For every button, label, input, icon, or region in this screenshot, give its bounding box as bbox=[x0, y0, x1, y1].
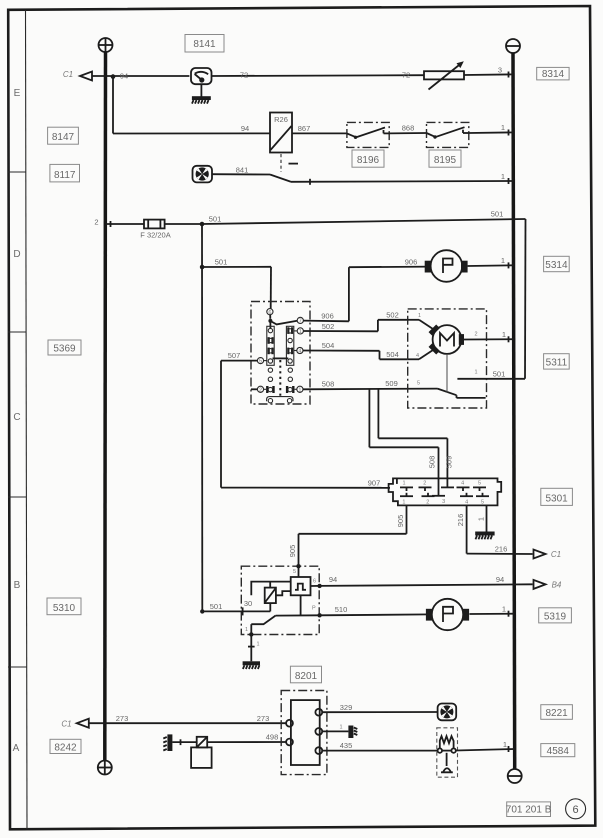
ground below 8141 bbox=[192, 84, 211, 103]
wire 501 vertical long left bbox=[201, 224, 203, 611]
svg-text:A: A bbox=[13, 743, 20, 754]
junction node 501 branch bbox=[200, 257, 271, 308]
svg-text:1: 1 bbox=[298, 387, 301, 393]
mechanical link R26 dashes bbox=[281, 154, 298, 172]
bottom contacts wiper switch bbox=[264, 386, 297, 393]
wire 2 from left bus to fuse bbox=[94, 218, 144, 228]
svg-text:94: 94 bbox=[329, 575, 337, 584]
terminal bar washer level sensor bbox=[163, 734, 196, 751]
svg-text:72: 72 bbox=[240, 71, 248, 80]
wire 94 row E bbox=[92, 72, 189, 81]
svg-text:3: 3 bbox=[442, 499, 445, 505]
svg-text:501: 501 bbox=[210, 602, 223, 611]
wire 329 to fan 8221 bbox=[322, 703, 437, 712]
wire 94 relay to arrow B4 bbox=[320, 575, 533, 586]
terminal bar middle pin 8201 bbox=[322, 725, 357, 738]
svg-text:1: 1 bbox=[402, 480, 405, 486]
wire 508 509 lower bbox=[303, 379, 438, 389]
wire 435 to 4584 bbox=[322, 741, 437, 750]
svg-text:5319: 5319 bbox=[544, 611, 567, 622]
wire 507 pin5 bbox=[221, 351, 257, 488]
switch blade pin6 to pin7 bbox=[270, 321, 297, 325]
svg-text:3: 3 bbox=[498, 66, 502, 75]
pin 1 wiper switch upper bbox=[297, 328, 303, 335]
svg-text:905: 905 bbox=[396, 515, 405, 528]
washer gauge icon 8141 bbox=[191, 68, 212, 84]
wire 1 motor 5319 to bus bbox=[469, 605, 514, 617]
svg-text:6: 6 bbox=[573, 804, 579, 816]
wiper motor box 5311 bbox=[408, 309, 487, 408]
svg-text:273: 273 bbox=[257, 714, 270, 723]
svg-text:4: 4 bbox=[416, 353, 419, 359]
svg-text:1: 1 bbox=[256, 641, 259, 647]
wire 94 branch down to relay R26 row bbox=[113, 77, 270, 134]
rear pump motor P 5319 bbox=[426, 599, 469, 630]
coil top feed wire bbox=[251, 582, 290, 596]
svg-text:216: 216 bbox=[456, 514, 465, 527]
wire 501 long to right loop bbox=[202, 210, 526, 225]
wire 907 to connector bbox=[221, 478, 390, 487]
label box 5311 bbox=[544, 354, 570, 369]
ground wire connector pin5 bbox=[475, 505, 494, 539]
svg-text:907: 907 bbox=[368, 478, 381, 487]
label box 5301 bbox=[541, 488, 573, 505]
connector block 8201 bbox=[281, 691, 327, 775]
washer pump P 5314 bbox=[425, 250, 468, 282]
svg-text:B: B bbox=[14, 580, 21, 591]
svg-text:5: 5 bbox=[259, 359, 262, 365]
wire 501 park contact bbox=[457, 369, 525, 378]
fan icon 8221 bbox=[438, 704, 457, 721]
svg-text:1: 1 bbox=[299, 329, 302, 335]
left bus bar positive bbox=[98, 38, 113, 775]
label box 5314 bbox=[544, 256, 570, 271]
left contact strip bbox=[267, 326, 274, 365]
wire 72 to variable resistor bbox=[212, 71, 425, 80]
svg-text:2: 2 bbox=[426, 499, 429, 505]
variable resistor 8314 row E bbox=[424, 61, 464, 89]
pin 4 wiper switch bbox=[297, 347, 303, 354]
svg-text:8221: 8221 bbox=[545, 708, 568, 719]
pin 5 wiper switch bbox=[257, 358, 263, 365]
relay contact blade bbox=[251, 595, 319, 634]
svg-text:1: 1 bbox=[502, 605, 506, 614]
svg-text:1: 1 bbox=[339, 725, 342, 731]
svg-text:E: E bbox=[14, 88, 21, 99]
wire 906 pin7 bbox=[303, 312, 349, 322]
svg-text:1: 1 bbox=[503, 740, 507, 749]
svg-text:906: 906 bbox=[405, 258, 418, 267]
connector arrow B4 right bbox=[534, 580, 562, 590]
wiper motor M bbox=[429, 324, 464, 354]
svg-text:8195: 8195 bbox=[434, 155, 457, 166]
title box 701 201 B bbox=[506, 802, 552, 817]
free contacts mid bbox=[268, 368, 292, 382]
svg-text:1: 1 bbox=[245, 627, 248, 633]
svg-text:C1: C1 bbox=[551, 550, 561, 559]
svg-text:905: 905 bbox=[288, 545, 297, 558]
fuse F32 20A bbox=[140, 220, 170, 240]
label box 8196 bbox=[352, 150, 384, 167]
svg-text:C: C bbox=[13, 412, 20, 423]
wire 3 to right bus bbox=[464, 66, 513, 78]
svg-text:1: 1 bbox=[501, 123, 505, 132]
wire 841 bbox=[212, 166, 270, 175]
label box 5369 bbox=[48, 340, 81, 355]
svg-text:5: 5 bbox=[417, 381, 420, 387]
zone column line bbox=[26, 10, 28, 829]
svg-text:F 32/20A: F 32/20A bbox=[140, 231, 170, 240]
svg-text:R26: R26 bbox=[274, 115, 288, 124]
label box 5310 bbox=[47, 598, 81, 615]
svg-text:501: 501 bbox=[493, 369, 506, 378]
wire 1 to right bus row E2 bbox=[469, 123, 514, 135]
motor feed wires inside box bbox=[408, 313, 433, 359]
svg-text:8201: 8201 bbox=[295, 671, 318, 682]
wire 501 loop vertical right of bus bbox=[524, 219, 527, 379]
wire 867 bbox=[292, 124, 347, 134]
label box 5319 bbox=[539, 608, 572, 623]
wire 1 pump to bus bbox=[468, 256, 514, 268]
wire 1 4584 to bus bbox=[442, 740, 514, 752]
label box 8221 bbox=[541, 705, 573, 720]
wire 501 30 into relay bbox=[200, 599, 270, 615]
svg-text:507: 507 bbox=[228, 351, 241, 360]
svg-text:8117: 8117 bbox=[54, 170, 76, 181]
svg-text:4: 4 bbox=[461, 480, 464, 486]
wire 510 relay P to motor bbox=[320, 605, 431, 615]
relay coil 5310 bbox=[265, 588, 276, 604]
coil link to timer bbox=[276, 591, 291, 595]
svg-text:8141: 8141 bbox=[193, 39, 216, 50]
pin 2 wiper switch bbox=[251, 386, 264, 393]
thermal sensor 4584 bbox=[437, 728, 458, 777]
wire 502 pin1 bbox=[303, 311, 407, 332]
svg-text:30: 30 bbox=[244, 599, 252, 608]
svg-text:94: 94 bbox=[120, 72, 128, 81]
svg-text:1: 1 bbox=[501, 256, 505, 265]
svg-text:5301: 5301 bbox=[545, 493, 568, 504]
svg-text:94: 94 bbox=[496, 575, 504, 584]
wire 501 fuse to junction bbox=[165, 215, 222, 227]
svg-text:5: 5 bbox=[293, 569, 296, 575]
timer relay box 5310 bbox=[241, 566, 319, 634]
svg-text:509: 509 bbox=[445, 456, 454, 469]
svg-text:5: 5 bbox=[478, 480, 481, 486]
svg-text:501: 501 bbox=[491, 210, 504, 219]
timer unit box bbox=[291, 577, 311, 595]
svg-text:867: 867 bbox=[298, 124, 311, 133]
svg-text:5311: 5311 bbox=[546, 357, 568, 368]
svg-text:7: 7 bbox=[299, 319, 302, 325]
svg-text:504: 504 bbox=[322, 341, 335, 350]
svg-text:4584: 4584 bbox=[547, 746, 570, 757]
wire 216 connector pin4 down bbox=[456, 505, 532, 554]
svg-text:1: 1 bbox=[476, 517, 485, 521]
switch 8196 bbox=[347, 122, 389, 147]
svg-text:72: 72 bbox=[402, 71, 410, 80]
svg-text:906: 906 bbox=[321, 312, 334, 321]
svg-text:502: 502 bbox=[322, 322, 335, 331]
svg-text:501: 501 bbox=[215, 257, 228, 266]
label box 8242 bbox=[50, 739, 81, 753]
wire 508 branch to connector bbox=[369, 389, 438, 496]
wire 1 motor to bus bbox=[464, 330, 514, 342]
switch 8195 bbox=[427, 122, 469, 147]
connector arrow C1 bottom left bbox=[61, 719, 88, 729]
level sensor symbol 8242 bbox=[191, 737, 212, 768]
svg-text:1: 1 bbox=[418, 313, 421, 319]
svg-text:C1: C1 bbox=[61, 719, 71, 728]
fan icon 8117 row bbox=[193, 166, 213, 183]
svg-text:8196: 8196 bbox=[357, 155, 380, 166]
svg-text:510: 510 bbox=[335, 605, 348, 614]
relay coil R26 bbox=[270, 113, 292, 153]
label box 4584 bbox=[541, 744, 575, 758]
svg-text:1: 1 bbox=[474, 370, 477, 376]
relay pin 1 bottom ground bbox=[243, 627, 260, 669]
relay pin 6 right bbox=[311, 579, 322, 589]
svg-text:868: 868 bbox=[402, 124, 415, 133]
svg-text:509: 509 bbox=[385, 379, 398, 388]
strip bridge wire bbox=[264, 331, 298, 361]
svg-text:502: 502 bbox=[386, 311, 399, 320]
label box 8141 bbox=[185, 35, 224, 53]
svg-text:498: 498 bbox=[266, 733, 279, 742]
park switch blade in motor box bbox=[417, 354, 486, 398]
svg-text:2: 2 bbox=[474, 331, 477, 337]
connector arrow C1 top left bbox=[63, 70, 92, 81]
svg-text:273: 273 bbox=[116, 714, 129, 723]
connector 5301 housing bbox=[389, 478, 502, 505]
wire 905 connector pin1 down bbox=[288, 505, 406, 565]
svg-text:8314: 8314 bbox=[542, 69, 565, 80]
svg-text:5: 5 bbox=[481, 499, 484, 505]
wire 498 bbox=[207, 733, 286, 743]
pin 6 wiper switch bbox=[267, 309, 273, 329]
label box 8117 bbox=[50, 164, 80, 182]
wiper stalk switch 5369 box bbox=[251, 302, 310, 405]
relay contact to bus row E3 bbox=[270, 172, 513, 185]
svg-text:94: 94 bbox=[241, 124, 249, 133]
svg-text:5310: 5310 bbox=[53, 603, 76, 614]
svg-text:2: 2 bbox=[423, 480, 426, 486]
svg-text:504: 504 bbox=[386, 350, 399, 359]
svg-text:1: 1 bbox=[402, 499, 405, 505]
svg-text:508: 508 bbox=[428, 456, 437, 469]
zone ticks bbox=[8, 172, 27, 667]
svg-text:8242: 8242 bbox=[54, 742, 77, 753]
svg-text:C1: C1 bbox=[63, 70, 73, 79]
svg-text:2: 2 bbox=[259, 387, 262, 393]
svg-text:1: 1 bbox=[502, 330, 506, 339]
pin 1 wiper switch lower bbox=[297, 386, 303, 393]
label box 8195 bbox=[429, 150, 461, 167]
label box 8147 bbox=[48, 127, 79, 144]
wire 509 branch to connector bbox=[378, 389, 453, 488]
svg-text:2: 2 bbox=[94, 218, 98, 227]
connector arrow C1 mid right bbox=[534, 550, 562, 560]
svg-text:841: 841 bbox=[236, 166, 249, 175]
svg-text:B4: B4 bbox=[552, 580, 562, 589]
relay pin 5 top bbox=[293, 564, 301, 577]
relay pin P right bbox=[312, 606, 322, 618]
pin 7 wiper switch bbox=[297, 317, 303, 324]
svg-text:216: 216 bbox=[495, 545, 508, 554]
svg-text:5314: 5314 bbox=[545, 260, 568, 271]
svg-text:4: 4 bbox=[465, 499, 468, 505]
right bus bar negative bbox=[506, 39, 522, 783]
svg-text:P: P bbox=[312, 606, 316, 612]
connector 5301 contacts bbox=[400, 480, 489, 505]
bottom bridge contact bbox=[267, 397, 293, 403]
svg-text:435: 435 bbox=[340, 741, 353, 750]
svg-text:701 201 B: 701 201 B bbox=[506, 805, 552, 816]
svg-text:D: D bbox=[13, 249, 20, 260]
wire 504 pin4 bbox=[303, 341, 408, 359]
wire 273 row A bbox=[89, 714, 286, 723]
svg-text:329: 329 bbox=[340, 703, 353, 712]
svg-text:8147: 8147 bbox=[52, 132, 75, 143]
svg-text:1: 1 bbox=[501, 172, 505, 181]
svg-text:5369: 5369 bbox=[53, 344, 76, 355]
svg-text:6: 6 bbox=[313, 579, 316, 585]
svg-text:4: 4 bbox=[298, 349, 301, 355]
page number circle 6 bbox=[566, 799, 586, 819]
right contact strip bbox=[286, 326, 293, 365]
label box 8201 bbox=[290, 666, 321, 683]
wire 906 corner to washer pump bbox=[349, 258, 431, 322]
mechanical link dotted bbox=[279, 360, 281, 396]
svg-text:501: 501 bbox=[209, 215, 222, 224]
label box 8314 bbox=[537, 67, 569, 80]
wire 868 bbox=[389, 124, 426, 134]
svg-text:508: 508 bbox=[322, 380, 335, 389]
